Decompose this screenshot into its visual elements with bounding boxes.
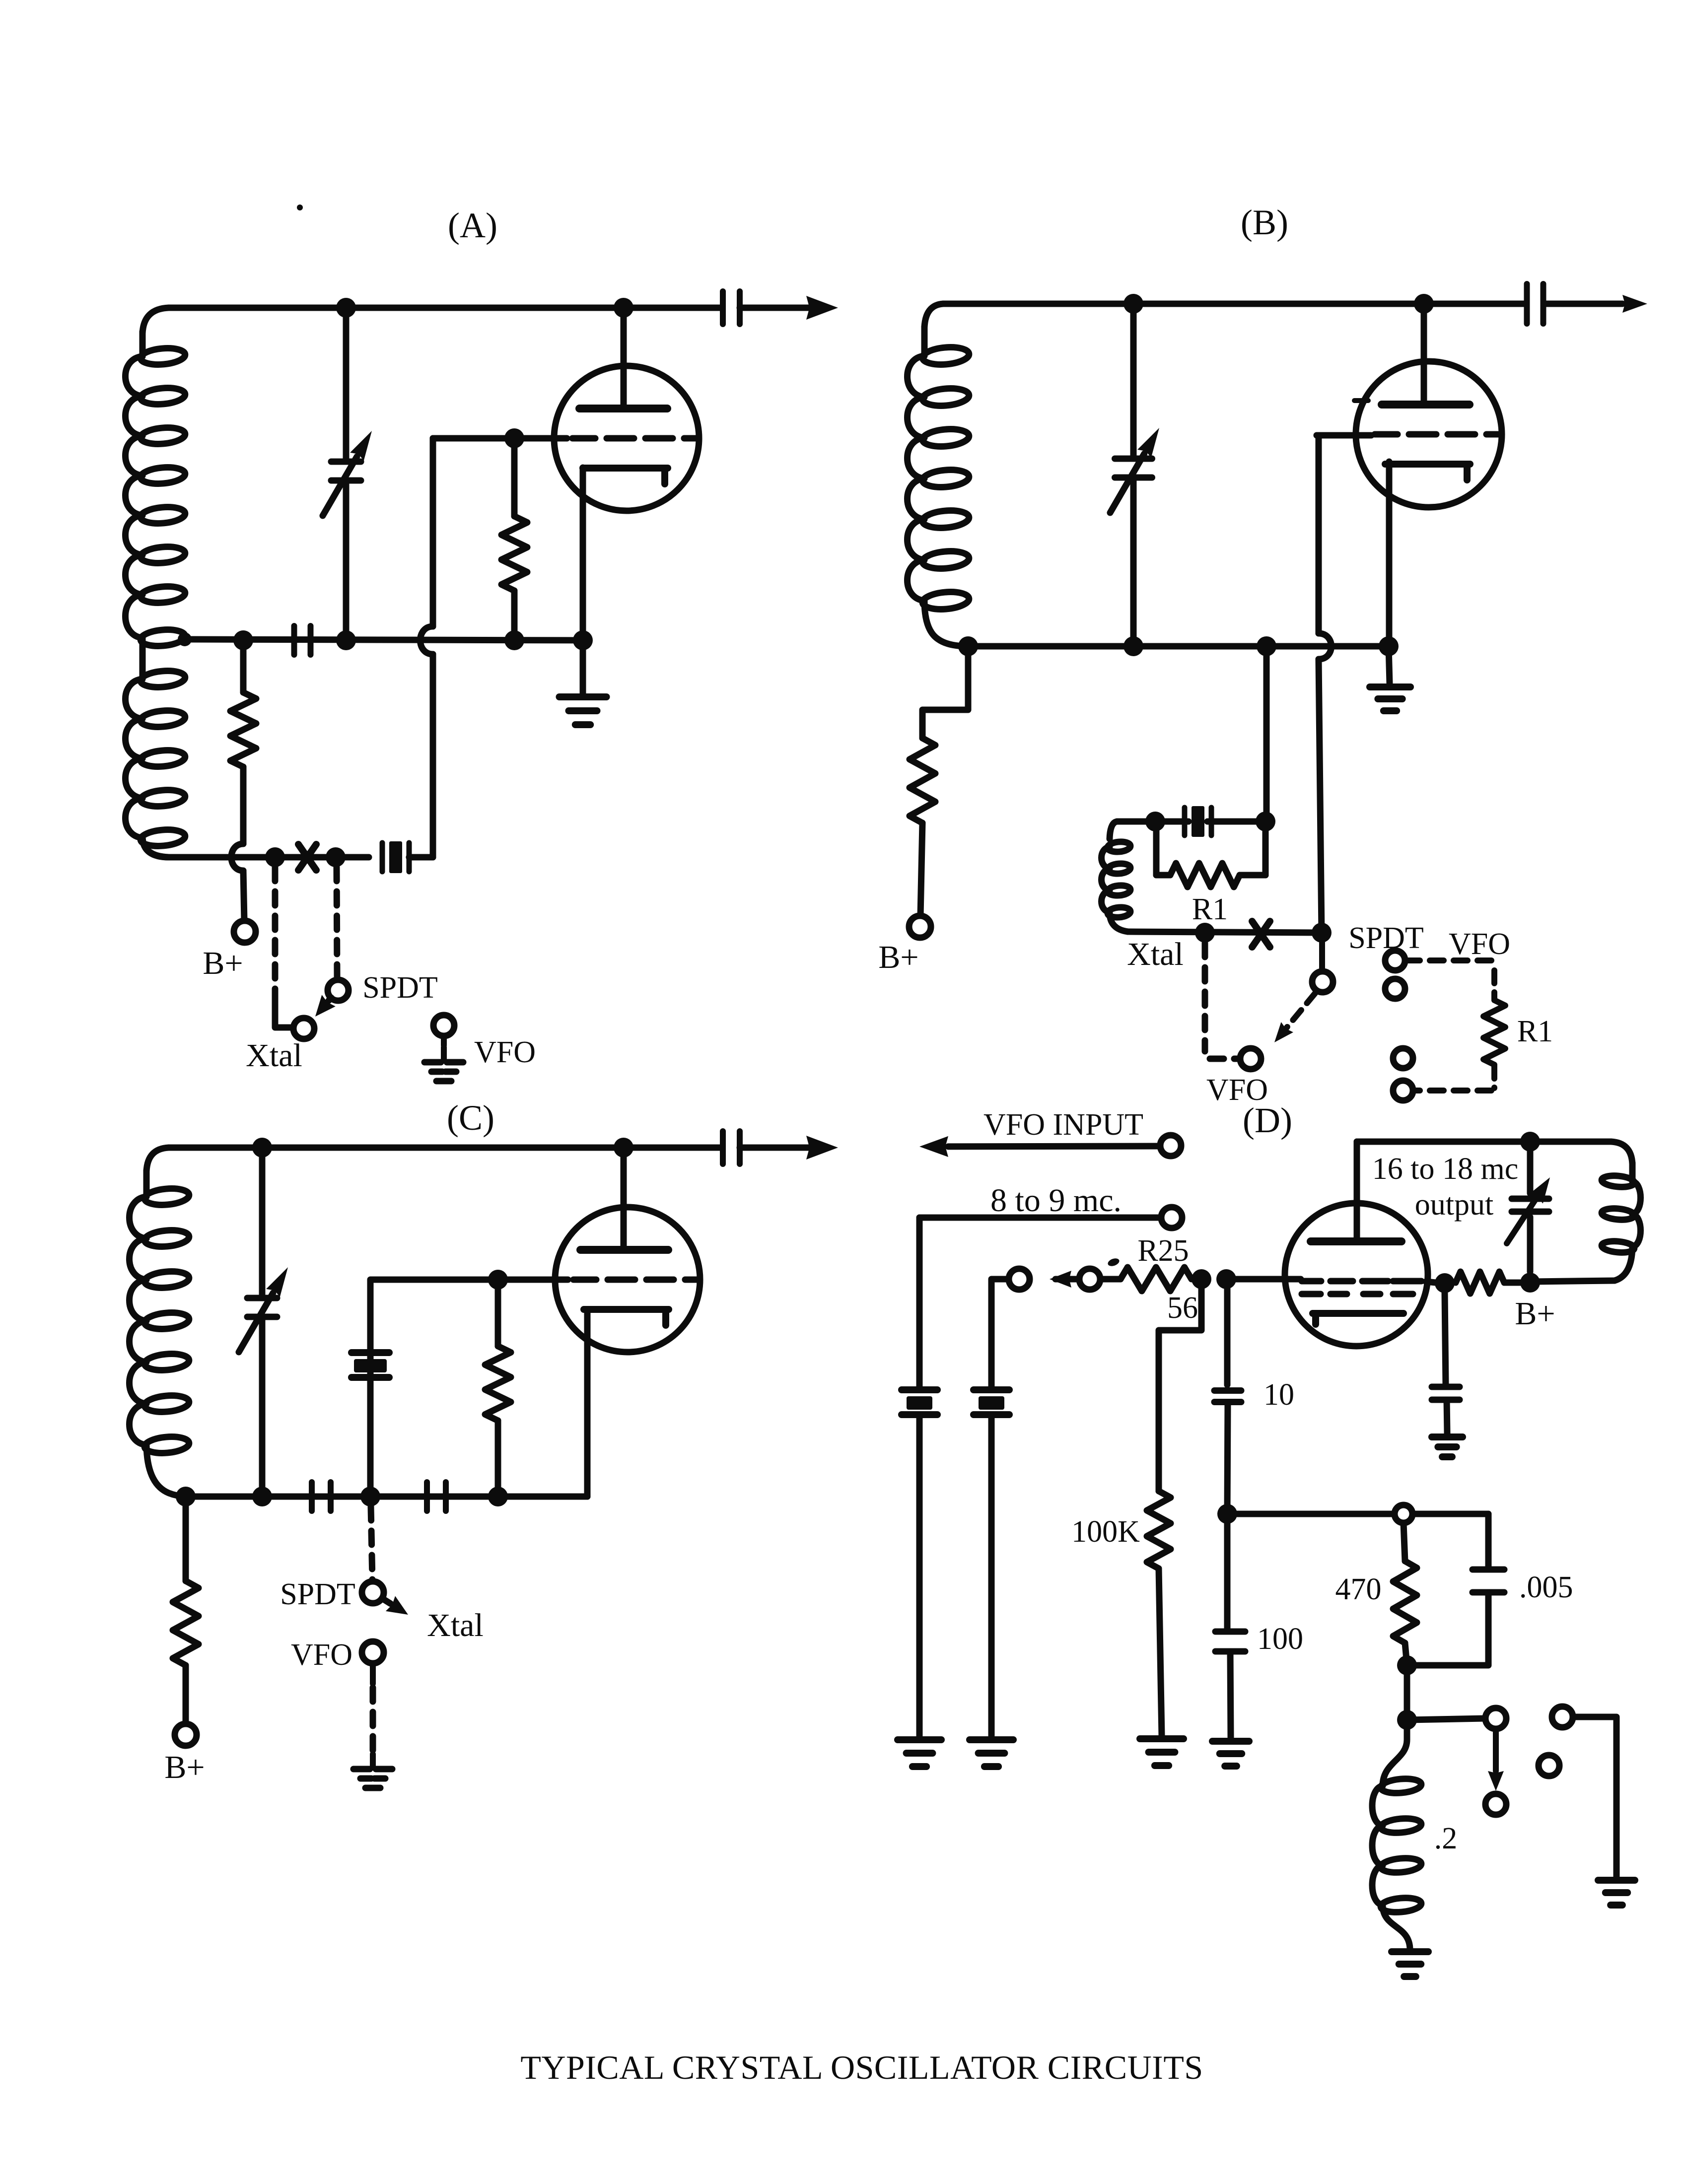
svg-text:(B): (B) <box>1241 203 1288 242</box>
svg-text:56: 56 <box>1167 1291 1198 1325</box>
svg-text:.2: .2 <box>1434 1822 1458 1855</box>
svg-text:10: 10 <box>1263 1378 1294 1412</box>
svg-text:16 to 18 mc: 16 to 18 mc <box>1372 1152 1518 1186</box>
svg-text:Xtal: Xtal <box>246 1037 302 1074</box>
svg-text:.005: .005 <box>1519 1570 1573 1604</box>
svg-text:R25: R25 <box>1137 1234 1189 1268</box>
svg-text:R1: R1 <box>1517 1015 1553 1048</box>
svg-text:SPDT: SPDT <box>280 1577 355 1611</box>
svg-text:B+: B+ <box>878 939 918 975</box>
svg-text:(C): (C) <box>447 1098 494 1138</box>
svg-text:VFO INPUT: VFO INPUT <box>983 1108 1143 1142</box>
svg-text:(D): (D) <box>1243 1100 1292 1140</box>
svg-text:B+: B+ <box>164 1749 205 1785</box>
svg-text:output: output <box>1415 1188 1493 1222</box>
svg-text:B+: B+ <box>1515 1296 1555 1332</box>
svg-text:TYPICAL CRYSTAL OSCILLATOR CIR: TYPICAL CRYSTAL OSCILLATOR CIRCUITS <box>520 2048 1203 2086</box>
svg-text:100K: 100K <box>1071 1515 1140 1549</box>
svg-text:(A): (A) <box>448 205 497 245</box>
svg-text:B+: B+ <box>203 945 243 981</box>
svg-text:VFO: VFO <box>291 1638 352 1672</box>
svg-text:SPDT: SPDT <box>1348 921 1424 955</box>
svg-text:100: 100 <box>1257 1622 1303 1656</box>
svg-text:Xtal: Xtal <box>427 1607 484 1643</box>
svg-text:SPDT: SPDT <box>362 971 438 1005</box>
svg-text:VFO: VFO <box>1449 927 1510 961</box>
svg-text:Xtal: Xtal <box>1127 936 1184 972</box>
svg-text:VFO: VFO <box>474 1035 536 1069</box>
svg-text:470: 470 <box>1335 1572 1382 1606</box>
svg-text:R1: R1 <box>1192 892 1228 926</box>
svg-text:8 to 9 mc.: 8 to 9 mc. <box>990 1182 1122 1219</box>
